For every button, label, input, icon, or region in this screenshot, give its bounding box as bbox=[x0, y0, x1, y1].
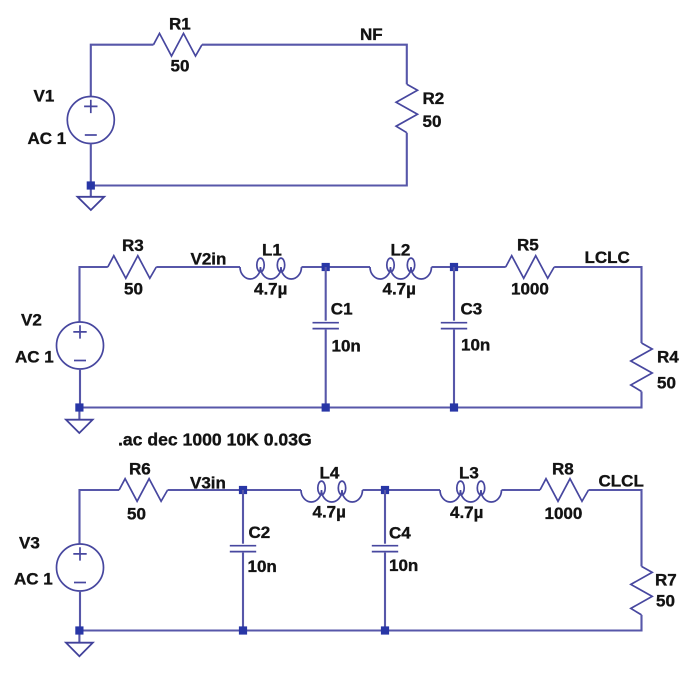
svg-text:50: 50 bbox=[171, 57, 190, 76]
svg-text:4.7µ: 4.7µ bbox=[313, 503, 346, 522]
svg-text:CLCL: CLCL bbox=[599, 472, 644, 491]
svg-text:NF: NF bbox=[360, 25, 383, 44]
svg-text:C1: C1 bbox=[331, 300, 353, 319]
svg-text:V2in: V2in bbox=[191, 250, 227, 269]
wire R6 to L4 bbox=[168, 489, 301, 491]
junction C1 top bbox=[322, 263, 330, 271]
resistor R6 bbox=[119, 479, 168, 502]
svg-text:50: 50 bbox=[656, 592, 675, 611]
wire L1 to L2 bbox=[302, 266, 371, 268]
svg-text:V3: V3 bbox=[19, 534, 40, 553]
svg-text:10n: 10n bbox=[461, 336, 490, 355]
wire V3 bottom bbox=[78, 591, 81, 643]
svg-text:R1: R1 bbox=[169, 14, 191, 33]
svg-text:R5: R5 bbox=[517, 236, 539, 255]
resistor R8 bbox=[540, 479, 589, 502]
svg-text:R3: R3 bbox=[122, 236, 144, 255]
wire V1 bottom bbox=[90, 144, 92, 197]
junction V2 ground node bbox=[75, 403, 83, 411]
svg-text:L1: L1 bbox=[262, 241, 282, 260]
svg-text:R4: R4 bbox=[657, 347, 679, 366]
junction C1 bottom bbox=[322, 403, 330, 411]
svg-text:50: 50 bbox=[423, 112, 442, 131]
svg-text:4.7µ: 4.7µ bbox=[383, 280, 416, 299]
svg-text:4.7µ: 4.7µ bbox=[254, 280, 287, 299]
ground symbol (bottom circuit) bbox=[66, 643, 93, 657]
svg-text:50: 50 bbox=[127, 504, 146, 523]
wire right edge down and bottom rail bbox=[91, 133, 407, 186]
junction C3 top bbox=[450, 263, 458, 271]
inductor L3 bbox=[440, 490, 502, 502]
wire top rail right (R1 to NF corner) bbox=[202, 45, 407, 84]
svg-text:C3: C3 bbox=[461, 300, 483, 319]
svg-text:10n: 10n bbox=[332, 337, 361, 356]
ground symbol (top circuit) bbox=[78, 197, 105, 210]
capacitor C4 bbox=[384, 490, 386, 544]
voltage source V3 bbox=[57, 544, 104, 591]
svg-text:V2: V2 bbox=[21, 311, 42, 330]
svg-text:C4: C4 bbox=[389, 524, 411, 543]
svg-text:.ac dec 1000 10K 0.03G: .ac dec 1000 10K 0.03G bbox=[118, 429, 312, 449]
svg-text:V1: V1 bbox=[34, 87, 55, 106]
capacitor C1 bbox=[325, 267, 327, 321]
junction C2 top bbox=[239, 486, 247, 494]
capacitor C2 bbox=[242, 490, 244, 544]
svg-text:C2: C2 bbox=[249, 523, 271, 542]
wire R5 to right corner bbox=[554, 267, 641, 343]
resistor R7 bbox=[631, 566, 652, 615]
svg-text:R6: R6 bbox=[129, 460, 151, 479]
svg-text:AC 1: AC 1 bbox=[15, 348, 54, 367]
svg-text:10n: 10n bbox=[248, 557, 277, 576]
resistor R5 bbox=[506, 256, 555, 279]
svg-text:1000: 1000 bbox=[545, 504, 583, 523]
V3 minus sign bbox=[74, 582, 86, 584]
svg-text:L4: L4 bbox=[320, 464, 340, 483]
junction V3 ground node bbox=[75, 626, 83, 634]
V3 plus sign bbox=[73, 547, 86, 560]
wire L2 to R5 bbox=[432, 266, 506, 268]
wire L3 to R8 bbox=[502, 489, 541, 491]
svg-text:AC 1: AC 1 bbox=[28, 129, 67, 148]
svg-text:AC 1: AC 1 bbox=[14, 570, 53, 589]
wire V2 top to R3 bbox=[80, 267, 108, 322]
resistor R1 bbox=[154, 33, 203, 56]
junction C4 top bbox=[381, 486, 389, 494]
wire top rail left (V1 top to R1) bbox=[91, 45, 154, 97]
inductor L2 bbox=[370, 267, 432, 279]
wire R8 to right corner bbox=[589, 490, 642, 566]
svg-text:V3in: V3in bbox=[190, 474, 226, 493]
junction C2 bottom bbox=[239, 626, 247, 634]
svg-text:1000: 1000 bbox=[511, 279, 549, 298]
V1 minus sign bbox=[85, 134, 97, 136]
wire L4 to L3 bbox=[363, 489, 441, 491]
V1 plus sign bbox=[84, 100, 97, 113]
wire R7 to bottom rail bbox=[79, 615, 641, 631]
junction C3 bottom bbox=[450, 403, 458, 411]
svg-text:R8: R8 bbox=[552, 460, 574, 479]
svg-text:L2: L2 bbox=[391, 241, 411, 260]
resistor R4 bbox=[631, 343, 652, 392]
svg-text:50: 50 bbox=[657, 373, 676, 392]
wire V3 top to R6 bbox=[80, 490, 120, 544]
voltage source V1 bbox=[67, 97, 114, 144]
svg-text:L3: L3 bbox=[459, 464, 479, 483]
junction V1 ground node bbox=[87, 181, 95, 189]
voltage source V2 bbox=[57, 322, 104, 369]
svg-text:50: 50 bbox=[124, 279, 143, 298]
svg-text:R2: R2 bbox=[423, 89, 445, 108]
capacitor C3 bbox=[453, 267, 455, 321]
wire R4 to bottom rail bbox=[79, 392, 641, 408]
wire R3 to L1 bbox=[156, 266, 240, 268]
junction C4 bottom bbox=[381, 626, 389, 634]
svg-text:R7: R7 bbox=[655, 571, 677, 590]
svg-text:10n: 10n bbox=[389, 556, 418, 575]
inductor L4 bbox=[301, 490, 363, 502]
wire V2 bottom bbox=[78, 369, 81, 420]
svg-text:4.7µ: 4.7µ bbox=[450, 503, 483, 522]
ground symbol (middle circuit) bbox=[66, 420, 93, 433]
resistor R2 bbox=[396, 84, 417, 133]
V2 minus sign bbox=[74, 360, 86, 362]
inductor L1 bbox=[240, 267, 302, 279]
resistor R3 bbox=[108, 256, 157, 279]
svg-text:LCLC: LCLC bbox=[585, 248, 630, 267]
V2 plus sign bbox=[73, 325, 86, 338]
